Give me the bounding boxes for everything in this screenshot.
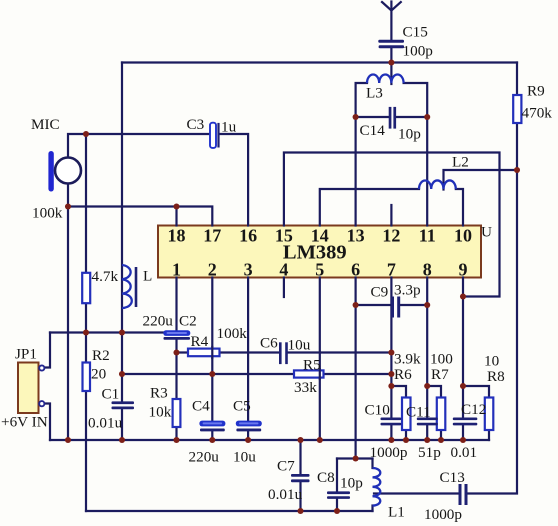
svg-text:R6: R6 xyxy=(394,366,412,383)
svg-text:R2: R2 xyxy=(92,347,110,364)
svg-text:R5: R5 xyxy=(303,357,321,374)
wire row y170 from R9 line to L2 tap xyxy=(444,170,518,190)
wire R6 top hook xyxy=(391,386,406,398)
wire R9 top lead from bus corner xyxy=(516,63,518,96)
svg-text:0.01u: 0.01u xyxy=(88,415,123,432)
wire L1 bottom lead xyxy=(371,506,373,512)
wire bus down into L3 tap xyxy=(390,63,392,85)
wire pin2 over R4 xyxy=(211,347,213,358)
svg-text:C5: C5 xyxy=(233,398,251,415)
svg-text:C13: C13 xyxy=(440,469,465,486)
svg-text:20: 20 xyxy=(91,366,107,383)
wire pin 7 below C10 xyxy=(390,425,392,440)
svg-text:11: 11 xyxy=(419,226,436,246)
wire pin 5 column to ground bus xyxy=(319,278,321,441)
svg-text:JP1: JP1 xyxy=(15,346,37,363)
wire R8 top hook xyxy=(463,386,489,398)
svg-text:R3: R3 xyxy=(150,385,168,402)
svg-text:C15: C15 xyxy=(403,24,428,41)
wire pin 18 stub xyxy=(175,207,177,226)
capacitor C13 plates xyxy=(459,484,468,505)
svg-text:C2: C2 xyxy=(179,313,197,330)
wire JP1 pin1 to +6V rail xyxy=(46,333,51,368)
wire pin 9 below C12 xyxy=(462,425,464,440)
svg-text:3.9k: 3.9k xyxy=(394,351,421,368)
svg-text:L: L xyxy=(143,268,152,285)
capacitor C6 plates xyxy=(279,342,288,364)
wire R5 row y374 xyxy=(122,373,391,375)
wire R9 bottom long right vertical to C13 xyxy=(468,123,518,494)
svg-text:100k: 100k xyxy=(217,325,248,342)
wire C5 bottom xyxy=(247,431,249,440)
svg-text:C9: C9 xyxy=(371,284,389,301)
wire C13 left to L1 tap xyxy=(374,492,459,494)
resistor 4.7k xyxy=(82,273,90,303)
svg-text:10u: 10u xyxy=(233,449,256,466)
resistor R7 xyxy=(437,398,446,431)
connector JP1 xyxy=(18,363,44,414)
wire L2 row from pin 14 xyxy=(320,189,419,226)
wire left vertical x122 from bus through inductor L to C1 xyxy=(121,63,123,402)
wire ground bus xyxy=(50,439,489,441)
wire R8 bottom xyxy=(488,430,490,440)
wire mic bottom down to ground bus xyxy=(67,184,69,440)
wire pin 7 column xyxy=(390,278,392,418)
wire pin 8 below C11 xyxy=(426,425,428,440)
svg-text:15: 15 xyxy=(275,226,293,246)
svg-text:12: 12 xyxy=(382,226,400,246)
capacitor C8 plates xyxy=(327,491,350,499)
wire C8/L1 top row xyxy=(337,457,373,459)
capacitor C1 plates xyxy=(112,401,135,409)
resistor R3 xyxy=(173,399,181,427)
wire x86 column C3-row to R2 top xyxy=(85,134,87,363)
microphone MIC xyxy=(48,151,81,192)
wire C6 right to pin7 column xyxy=(288,351,392,353)
wire x122 below C1 to ground bus xyxy=(121,409,123,441)
svg-text:C14: C14 xyxy=(360,122,386,139)
resistor R4 xyxy=(188,349,220,357)
svg-text:10k: 10k xyxy=(149,404,172,421)
svg-text:1u: 1u xyxy=(221,119,237,136)
wire x86 below R2 crossing ground bus to bottom row xyxy=(85,391,87,511)
wire C14 row left xyxy=(356,116,389,118)
wire L3 tank frame right to pin 11 xyxy=(404,83,428,226)
wire C7 bottom xyxy=(299,483,301,512)
svg-text:C12: C12 xyxy=(461,401,486,418)
wire antenna feed / C15 top xyxy=(390,2,392,40)
wire +6V rail to C2 xyxy=(50,331,177,333)
svg-text:470k: 470k xyxy=(522,105,553,122)
capacitor C14 plates xyxy=(389,107,396,129)
wire L2 right end to pin 10 xyxy=(456,189,463,226)
wire C7 column top xyxy=(299,440,301,474)
svg-text:100p: 100p xyxy=(403,43,433,60)
inductor L3 xyxy=(367,74,404,83)
wire C4 bottom xyxy=(211,431,213,440)
svg-text:L1: L1 xyxy=(388,504,405,521)
wire pin 8 column xyxy=(426,278,428,418)
wire R7 bottom xyxy=(440,430,442,440)
wire pin 3 column to C5 xyxy=(247,278,249,421)
wire top supply bus xyxy=(122,61,517,63)
svg-text:220u: 220u xyxy=(189,449,220,466)
capacitor C7 plates xyxy=(291,474,310,482)
svg-text:10: 10 xyxy=(454,226,472,246)
svg-text:R9: R9 xyxy=(527,83,545,100)
wire C15 bottom to bus xyxy=(390,49,392,63)
svg-text:14: 14 xyxy=(311,226,329,246)
wire C2 bottom to R3 xyxy=(175,341,177,400)
svg-text:100k: 100k xyxy=(32,205,63,222)
pin numbers bottom row 1..9 xyxy=(172,260,468,280)
svg-text:C10: C10 xyxy=(365,402,391,419)
capacitor C12 plates xyxy=(453,418,478,426)
svg-text:220u: 220u xyxy=(143,313,174,330)
svg-text:C4: C4 xyxy=(192,398,210,415)
capacitor C11 plates xyxy=(417,418,438,426)
resistor R6 xyxy=(402,398,411,431)
svg-text:MIC: MIC xyxy=(31,116,60,133)
svg-text:10: 10 xyxy=(484,353,500,370)
wire pin 1 column to C2 xyxy=(175,278,177,332)
svg-text:C1: C1 xyxy=(102,386,120,403)
svg-text:1000p: 1000p xyxy=(370,444,408,461)
svg-text:100: 100 xyxy=(430,351,453,368)
svg-text:16: 16 xyxy=(239,226,257,246)
svg-text:1000p: 1000p xyxy=(424,506,462,523)
svg-text:3.3p: 3.3p xyxy=(394,282,421,299)
wire C9 row left xyxy=(356,304,391,306)
svg-text:R8: R8 xyxy=(487,368,505,385)
wire 100k row from mic column to pin 17 xyxy=(68,207,212,226)
svg-text:C11: C11 xyxy=(406,404,431,421)
resistor R2 xyxy=(83,363,91,392)
svg-text:L3: L3 xyxy=(366,85,383,102)
wire R3 bottom to bus xyxy=(175,427,177,440)
wire bottom ground row xyxy=(86,510,373,512)
svg-text:18: 18 xyxy=(168,226,186,246)
wire R4-C6 row y352 xyxy=(177,351,280,353)
capacitor C9 plates xyxy=(391,297,400,318)
pin numbers top row 18..10 xyxy=(168,226,473,246)
wire C3 right to pin 16 xyxy=(220,134,249,226)
svg-text:R7: R7 xyxy=(431,366,449,383)
wire mic top to C3 row xyxy=(68,134,209,157)
resistor R9 xyxy=(513,95,521,123)
svg-text:51p: 51p xyxy=(418,444,441,461)
wire row y153 from pin 15 to right vertical xyxy=(284,153,500,297)
wire pin 4 stub xyxy=(283,278,285,298)
wire R6 bottom xyxy=(405,430,407,440)
svg-text:C8: C8 xyxy=(317,469,335,486)
wire pin5 over R5 xyxy=(319,369,321,379)
inductor L (left, with core bar) xyxy=(122,265,137,308)
capacitor C3 plates xyxy=(210,123,220,148)
svg-text:10u: 10u xyxy=(288,337,311,354)
svg-text:13: 13 xyxy=(347,226,365,246)
wire pin 2 column to C4 xyxy=(211,278,213,421)
wire C14 row right xyxy=(396,116,427,118)
svg-text:10p: 10p xyxy=(340,475,363,492)
resistor R8 xyxy=(485,398,494,431)
svg-text:C3: C3 xyxy=(187,116,205,133)
capacitor C4 plates xyxy=(199,421,225,432)
capacitor C5 plates xyxy=(236,421,262,432)
capacitor C10 plates xyxy=(381,418,402,426)
wire R7 top hook xyxy=(427,386,441,398)
wire pin 9 column xyxy=(462,278,464,418)
svg-text:+6V IN: +6V IN xyxy=(1,414,48,431)
wire C9 row right xyxy=(400,304,427,306)
op-amp U LM389 IC body xyxy=(158,226,481,278)
svg-text:U: U xyxy=(481,224,492,241)
svg-text:0.01: 0.01 xyxy=(451,444,478,461)
svg-text:33k: 33k xyxy=(294,379,317,396)
inductor L2 xyxy=(419,180,456,189)
resistor R5 xyxy=(294,370,324,377)
svg-text:17: 17 xyxy=(203,226,221,246)
wire JP1 pin2 to ground bus xyxy=(46,404,51,441)
wire pin 12 stub xyxy=(390,205,392,226)
svg-text:C6: C6 xyxy=(260,335,278,352)
svg-text:R4: R4 xyxy=(191,333,209,350)
svg-text:0.01u: 0.01u xyxy=(268,486,303,503)
inductor L1 xyxy=(373,468,381,506)
svg-text:C7: C7 xyxy=(277,458,295,475)
svg-text:4.7k: 4.7k xyxy=(92,268,119,285)
wire C8 bottom xyxy=(336,499,338,511)
wire pin 6 column down to oscillator tank xyxy=(355,278,357,459)
capacitor C2 plates (electrolytic) xyxy=(163,330,190,339)
wire C8 column top xyxy=(336,459,338,492)
wire L3 tank frame left to pin 13 xyxy=(356,83,367,226)
antenna arms xyxy=(382,2,401,11)
svg-text:L2: L2 xyxy=(452,154,469,171)
capacitor C15 plates xyxy=(378,40,404,49)
svg-text:10p: 10p xyxy=(398,126,421,143)
wire L1 top lead xyxy=(371,459,373,469)
